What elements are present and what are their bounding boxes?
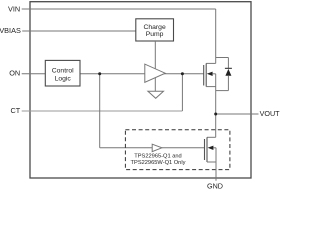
svg-text:Control: Control	[52, 67, 74, 74]
svg-text:Logic: Logic	[55, 76, 72, 83]
svg-text:VOUT: VOUT	[260, 109, 280, 118]
svg-text:Pump: Pump	[146, 31, 164, 38]
svg-text:CT: CT	[10, 106, 20, 115]
svg-text:VIN: VIN	[8, 4, 20, 13]
svg-text:ON: ON	[9, 69, 20, 78]
svg-text:VBIAS: VBIAS	[0, 26, 21, 35]
svg-text:TPS22965W-Q1 Only: TPS22965W-Q1 Only	[131, 160, 186, 166]
svg-text:TPS22965-Q1 and: TPS22965-Q1 and	[134, 154, 181, 160]
svg-text:Charge: Charge	[143, 24, 166, 31]
svg-text:GND: GND	[207, 182, 223, 191]
